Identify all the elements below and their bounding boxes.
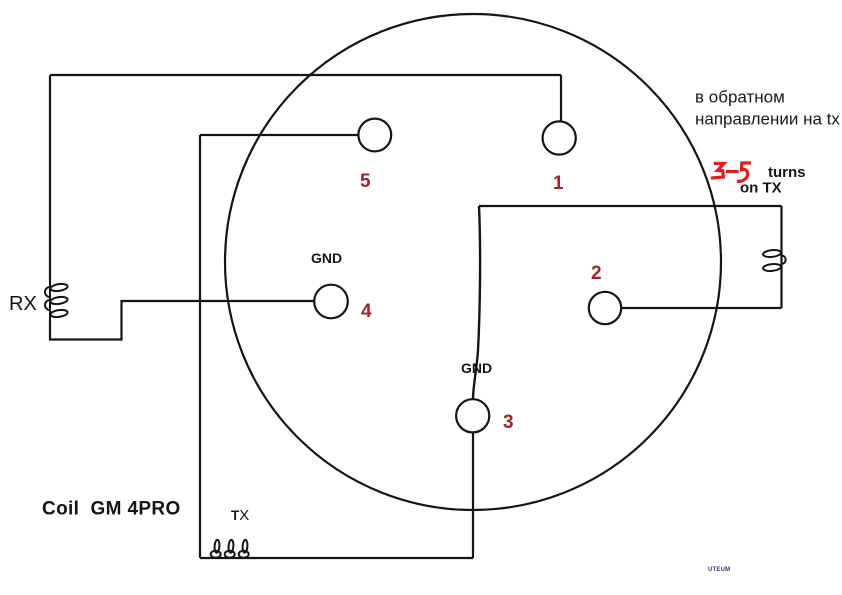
wire: top horizontal net (RX top to pin1) — [50, 74, 561, 76]
svg-text:в обратном: в обратном — [695, 88, 785, 107]
wire: pin1 vertical drop — [560, 75, 562, 122]
pin 4 pad — [314, 285, 348, 319]
pin 2 pad — [589, 292, 621, 324]
svg-text:5: 5 — [360, 171, 371, 192]
wire: pin2 horizontal — [621, 307, 782, 309]
wire: curvy GND/pin3 riser — [473, 206, 480, 399]
pin 5 pad — [358, 119, 391, 152]
svg-text:4: 4 — [361, 301, 372, 322]
svg-text:GND: GND — [311, 250, 342, 266]
handwritten 3-5 — [713, 163, 750, 181]
connector body circle — [225, 14, 721, 510]
wire: net 2-3 top horizontal — [479, 205, 782, 207]
inductor extra turns on TX — [763, 249, 786, 272]
wire: TX bottom net — [200, 557, 473, 559]
svg-text:RX: RX — [9, 293, 37, 315]
inductor TX coil — [211, 540, 249, 558]
svg-text:on TX: on TX — [740, 180, 782, 197]
svg-text:GND: GND — [461, 360, 492, 376]
svg-text:направлении на tx: направлении на tx — [695, 110, 840, 129]
pin 1 pad — [543, 121, 576, 154]
svg-text:3: 3 — [503, 412, 514, 433]
wire: right vertical with extra-turns coil spine — [780, 206, 782, 308]
wire: left vertical to RX coil top — [49, 75, 51, 281]
svg-text:Coil GM 4PRO: Coil GM 4PRO — [42, 499, 181, 520]
wire: RX bottom to pin 4 — [50, 301, 314, 340]
wire: pin5 horizontal — [200, 134, 358, 136]
wire: left branch vertical (pin5 to TX) — [199, 135, 201, 558]
inductor RX coil — [45, 281, 68, 320]
svg-text:TX: TX — [231, 507, 249, 524]
svg-text:turns: turns — [768, 164, 806, 181]
svg-text:1: 1 — [553, 173, 564, 194]
svg-text:2: 2 — [591, 263, 602, 284]
pin 3 pad — [456, 399, 489, 432]
svg-text:UTEUM: UTEUM — [708, 567, 730, 573]
wire: pin3 to TX net vertical — [472, 432, 474, 558]
